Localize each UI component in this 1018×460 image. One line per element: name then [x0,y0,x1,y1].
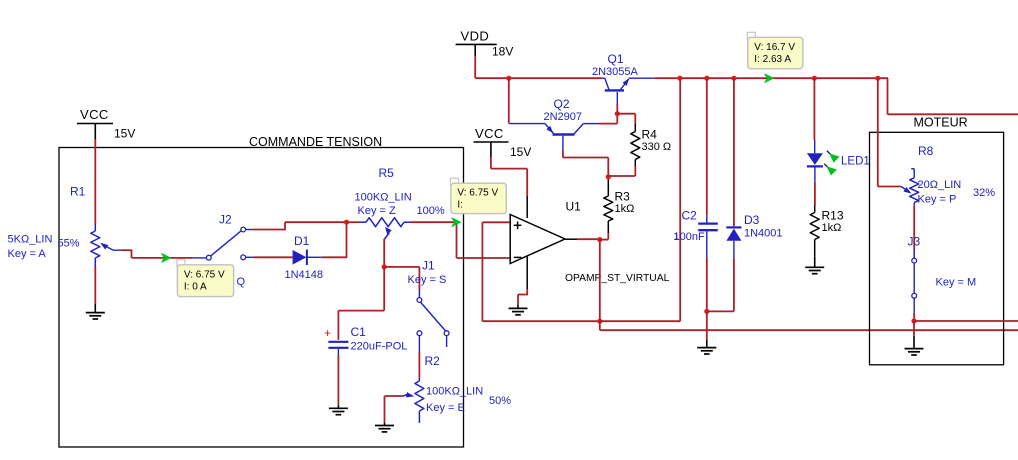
svg-text:J2: J2 [219,213,232,227]
node junction R3 top [606,174,611,179]
svg-text:I:: I: [457,200,463,211]
moteur enclosure box [870,132,1004,364]
ground below C1 [329,407,348,409]
ground below R1 [86,312,105,314]
switch J2 upper throw contact [241,227,246,232]
switch J3 bottom contact [912,293,917,298]
svg-text:20Ω_LIN: 20Ω_LIN [918,179,962,191]
svg-text:Q: Q [237,276,246,288]
svg-text:VDD: VDD [461,29,490,44]
wire motor drop to R8 wiper [877,78,879,186]
svg-text:R13: R13 [822,209,844,223]
wire D3 anode to ground node [733,258,735,311]
svg-text:V: 6.75 V: V: 6.75 V [457,188,498,199]
wire motor node to right edge [914,320,1018,322]
switch J1 left throw contact [417,331,422,336]
switch J3 blade [913,263,915,293]
wire VDD rail to Q1 collector [475,77,601,79]
wire output long line to motor [600,329,1018,331]
wire R5 right to op-amp minus [410,221,457,223]
power VDD symbol [456,43,497,45]
svg-text:R1: R1 [70,185,86,199]
svg-text:Q2: Q2 [554,97,570,111]
wire Q2 emitter riser [508,78,510,123]
svg-text:1N4001: 1N4001 [744,228,783,240]
ground below R2 wiper [375,425,394,427]
svg-text:U1: U1 [566,200,582,214]
svg-text:1kΩ: 1kΩ [822,222,842,234]
svg-text:100KΩ_LIN: 100KΩ_LIN [426,386,483,398]
wire VDD to rail [474,56,476,78]
svg-text:D3: D3 [744,213,760,227]
svg-text:+: + [324,326,331,340]
wire node to C1 [383,267,385,311]
svg-text:32%: 32% [973,187,995,199]
switch J2 blade [211,231,242,256]
potentiometer R5 wiper arrow [385,227,392,234]
svg-text:LED1: LED1 [841,156,870,168]
led LED1 [813,78,815,140]
led LED1 emission arrows [827,151,833,156]
svg-text:1N4148: 1N4148 [285,269,324,281]
switch J3 top contact [912,258,917,263]
op-amp output pin [565,238,577,240]
wire R5 wiper down [383,239,385,267]
ground below op-amp [509,307,528,309]
svg-text:Key = A: Key = A [8,248,47,260]
op-amp U1 minus input marking [514,256,522,258]
svg-text:50%: 50% [489,395,511,407]
potentiometer R8 wiper arrow [901,187,905,190]
svg-text:100%: 100% [417,205,445,217]
transistor Q2 2N2907 [509,123,545,125]
op-amp U1 plus input marking [514,224,522,226]
switch J1 top contact [417,298,422,303]
node junction D3 top [731,76,736,81]
wire Q1 emitter output rail [655,77,888,79]
svg-text:VCC: VCC [80,107,109,122]
wire feedback to output rail riser [600,320,680,322]
potentiometer R1 wiper arrow [100,243,108,250]
svg-text:5KΩ_LIN: 5KΩ_LIN [8,234,53,246]
svg-text:OPAMP_ST_VIRTUAL: OPAMP_ST_VIRTUAL [565,273,670,284]
potentiometer R8 body [911,168,914,170]
node junction feedback riser [677,76,682,81]
svg-text:COMMANDE TENSION: COMMANDE TENSION [249,135,382,149]
node junction LED drop [812,76,817,81]
node junction motor drop [875,76,880,81]
potentiometer R2 body [418,378,420,381]
svg-text:R2: R2 [425,354,441,368]
svg-text:Key = Z: Key = Z [358,205,396,217]
svg-text:220uF-POL: 220uF-POL [351,341,408,353]
potentiometer R2 wiper arrow [403,394,408,396]
probe tooltip V 6.75 I 0A [177,260,185,267]
probe tooltip V 16.7 I 2.63 [747,32,755,39]
switch J1 right throw contact [444,331,449,336]
wire R1 wiper to J2 [122,249,132,251]
transistor Q1 2N3055A [601,77,605,79]
svg-text:2N2907: 2N2907 [544,111,583,123]
wire J3 to motor node [913,298,915,312]
switch J2 pole contact [206,255,211,260]
svg-text:Key = P: Key = P [918,194,957,206]
wire C1 to ground [337,355,339,405]
ground below C2 [697,347,716,349]
svg-text:R3: R3 [615,190,631,204]
svg-text:J3: J3 [908,235,921,249]
svg-text:330 Ω: 330 Ω [642,141,672,153]
node junction op-amp output [597,237,602,242]
svg-text:R4: R4 [642,128,658,142]
current arrow R5 output [451,217,462,227]
svg-text:V: 6.75 V: V: 6.75 V [184,269,225,280]
svg-text:100KΩ_LIN: 100KΩ_LIN [355,192,412,204]
svg-text:J1: J1 [422,259,435,273]
node junction Q1 base [615,111,620,116]
svg-text:V: 16.7 V: V: 16.7 V [754,42,795,53]
svg-text:I: 2.63 A: I: 2.63 A [754,54,791,65]
resistor R3 1k [607,177,609,196]
svg-text:Key = E: Key = E [426,402,465,414]
current arrow on output rail [764,73,775,83]
wire J1 left throw to R2 [418,336,420,352]
wire R4 bottom to R3 node [634,167,636,176]
switch J1 blade [420,302,445,331]
diode D3 1N4001 [733,78,735,226]
svg-text:Key = S: Key = S [408,274,447,286]
svg-text:R5: R5 [379,166,395,180]
wire D1 to R5 input node [321,256,347,258]
power VCC left symbol [77,123,113,125]
op-amp U1 triangle [510,215,565,264]
node junction motor return [911,318,916,323]
node junction Q2 emitter riser [506,76,511,81]
node junction R5 input [344,220,349,225]
wire R8 to J3 [913,206,915,250]
wire plus input to feedback [482,221,509,223]
capacitor C1 220uF-POL [328,341,348,343]
wire R2 wiper to ground [385,395,404,397]
wire Q1 base down [616,92,618,104]
wire rail end to right edge [887,78,889,114]
command-tension enclosure box [59,148,464,448]
svg-text:15V: 15V [510,145,531,159]
svg-text:Key = M: Key = M [936,277,977,289]
svg-text:18V: 18V [492,45,513,59]
svg-text:C2: C2 [682,209,698,223]
resistor R13 1k [814,206,816,213]
svg-text:1kΩ: 1kΩ [615,203,635,215]
switch J1 right throw stub [446,336,448,347]
wire J2 lower throw to D1 [246,256,254,258]
potentiometer R5 body [347,221,360,223]
svg-text:Q1: Q1 [608,52,624,66]
svg-text:I: 0 A: I: 0 A [184,281,207,292]
ground below R13 [805,266,824,268]
switch J2 lower throw contact [241,255,246,260]
node junction C2-D3 ground [704,309,709,314]
wire motor node to ground [913,321,915,336]
svg-text:100nF: 100nF [674,231,705,243]
wire VCC2 to op-amp vs+ [490,157,492,169]
svg-text:D1: D1 [294,234,310,248]
svg-text:C1: C1 [351,325,367,339]
wire node to J1 [384,266,419,268]
wire Q2 base to R3 node [562,136,564,151]
op-amp U1 bottom pin to ground [526,257,528,289]
svg-text:VCC: VCC [475,126,504,141]
wire node to R4 [617,113,635,115]
potentiometer R1 body [94,224,96,231]
capacitor C2 100nF [706,78,708,215]
ground in motor box [905,348,924,350]
resistor R4 330 [634,114,636,124]
current arrow on R1-J2 wire [161,253,172,263]
power VCC op-amp symbol [474,141,509,143]
wire LED1 to R13 [814,183,816,206]
svg-text:55%: 55% [58,238,80,250]
svg-text:MOTEUR: MOTEUR [914,116,968,130]
svg-text:R8: R8 [918,144,934,158]
wire C2 node to ground [706,311,708,340]
wire op-amp output down [599,240,601,331]
node junction wiper [382,264,387,269]
node junction feedback-output [597,319,602,324]
wire J2 upper throw to R5 node [246,229,254,231]
node junction C2 top [704,76,709,81]
wire VCC1 to R1 top [94,139,96,224]
probe tooltip V 6.75 I blank [450,178,458,185]
svg-text:15V: 15V [114,127,135,141]
diode D1 1N4148 [293,250,307,265]
wire Q2 collector to Q1 base node [599,123,617,125]
wire R1 bottom to ground [94,267,96,305]
svg-text:2N3055A: 2N3055A [592,66,639,78]
